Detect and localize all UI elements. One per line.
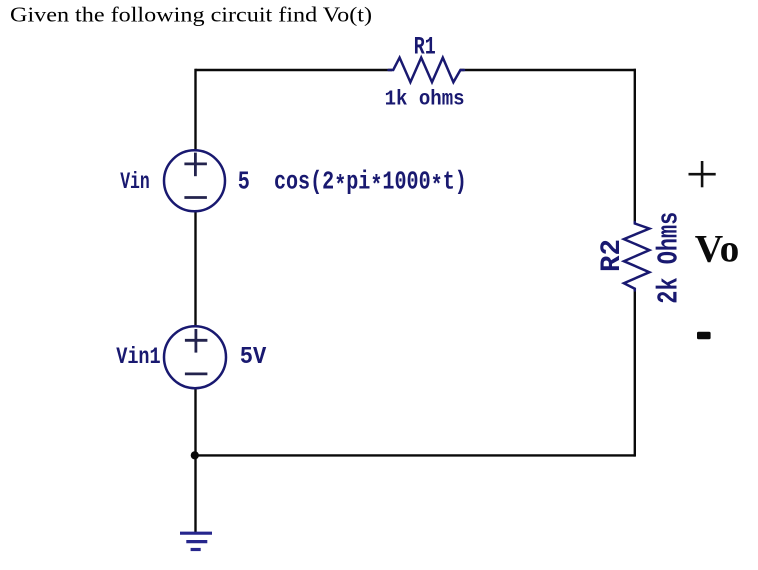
Vin minus sign: [184, 196, 207, 199]
svg-text:Vin: Vin: [120, 169, 150, 195]
svg-text:5 cos(2*pi*1000*t): 5 cos(2*pi*1000*t): [238, 166, 467, 201]
svg-text:R1: R1: [414, 32, 436, 61]
wire right vertical (top corner to R2): [634, 69, 636, 223]
Vin plus sign: [194, 153, 197, 177]
output plus sign: [689, 161, 716, 187]
output minus sign: [697, 332, 711, 339]
wire Vin to Vin1: [194, 212, 196, 326]
voltage source Vin: [164, 150, 225, 211]
Vin1 minus sign: [185, 372, 208, 375]
resistor R1: [389, 58, 465, 83]
svg-text:R2: R2: [597, 239, 628, 272]
svg-text:Vin1: Vin1: [116, 344, 161, 370]
svg-text:1k ohms: 1k ohms: [385, 89, 465, 112]
svg-text:2k Ohms: 2k Ohms: [652, 212, 685, 304]
wire bottom node to ground: [194, 455, 196, 532]
wire top-left to R1: [196, 69, 393, 71]
wire Vin1 to bottom node: [194, 389, 196, 456]
resistor R2: [624, 222, 650, 291]
Vin1 plus sign: [194, 329, 197, 353]
wire R1 to top-right corner: [460, 69, 636, 71]
svg-text:Vo: Vo: [695, 227, 740, 270]
voltage source Vin1: [164, 326, 226, 388]
svg-text:5V: 5V: [240, 344, 267, 371]
wire R2 to bottom-right corner: [634, 290, 636, 457]
ground: [180, 533, 212, 549]
node A junction dot: [191, 451, 199, 459]
wire left vertical (top corner to Vin): [194, 69, 196, 150]
svg-text:Given the following circuit fi: Given the following circuit find Vo(t): [10, 3, 372, 27]
wire bottom horizontal: [196, 454, 635, 456]
